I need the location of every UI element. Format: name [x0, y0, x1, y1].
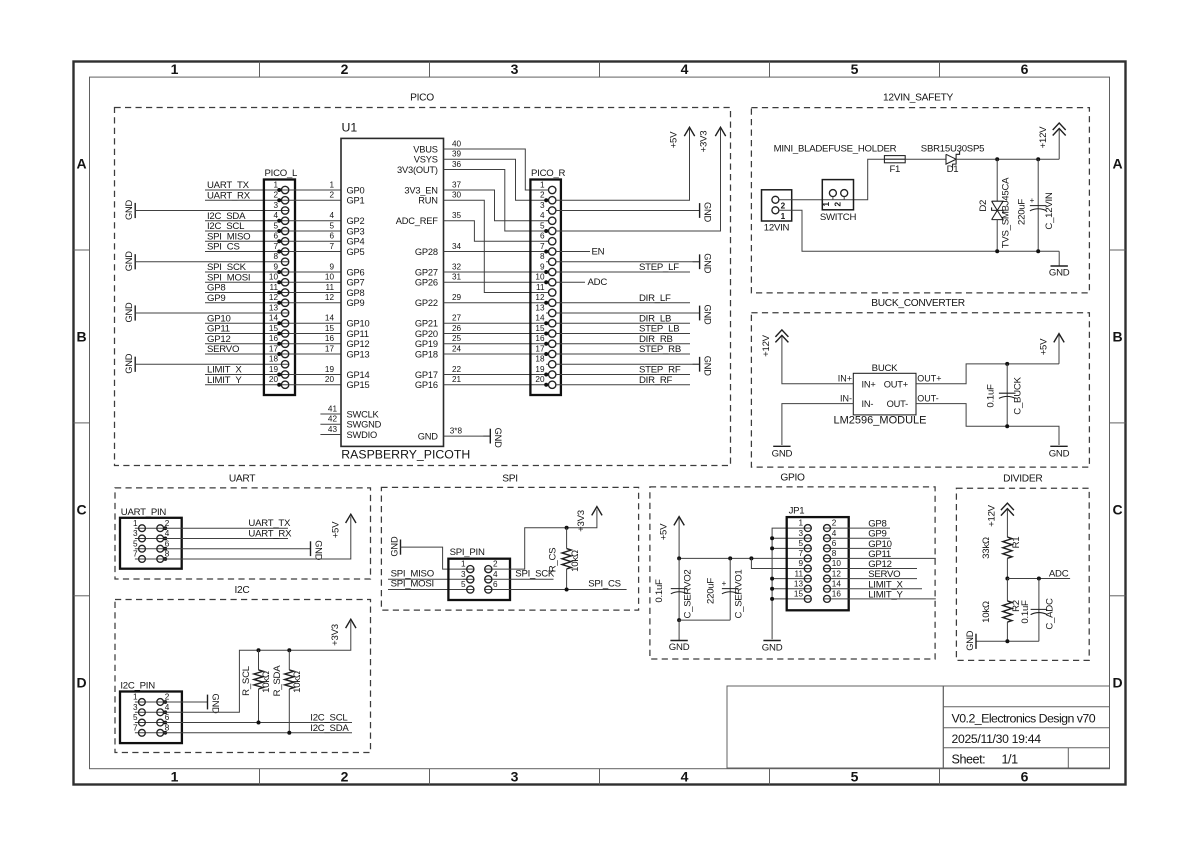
svg-text:GP22: GP22	[415, 298, 438, 308]
junction	[287, 648, 291, 652]
junction	[1005, 362, 1009, 366]
svg-text:ADC: ADC	[1049, 569, 1069, 580]
wire	[782, 336, 853, 383]
svg-text:GP11: GP11	[347, 329, 369, 339]
power symbol +5V (PICO)	[669, 127, 695, 148]
svg-text:Sheet:: Sheet:	[952, 753, 986, 767]
wire	[444, 314, 549, 324]
svg-text:LM2596_MODULE: LM2596_MODULE	[834, 414, 927, 426]
svg-text:21: 21	[452, 375, 462, 384]
svg-text:2: 2	[341, 769, 349, 785]
svg-text:GND: GND	[702, 305, 712, 326]
junction	[565, 588, 569, 592]
power symbol GND (GPIO bus)	[762, 641, 783, 654]
connector PICO_L pin circles	[281, 186, 288, 193]
svg-text:GP0: GP0	[347, 185, 365, 195]
wire	[916, 364, 1059, 384]
junction	[1005, 639, 1009, 643]
svg-text:5: 5	[273, 221, 278, 230]
svg-text:3: 3	[133, 529, 138, 538]
capacitor C_SERVO1 220uF	[705, 558, 744, 620]
power symbol GND (left of PICO_L)	[124, 199, 135, 220]
net label DIR_LF	[639, 293, 671, 304]
svg-text:11: 11	[270, 283, 279, 292]
svg-text:40: 40	[452, 139, 462, 148]
svg-text:+12V: +12V	[1038, 126, 1049, 149]
power symbol GND (right of PICO_R)	[693, 305, 713, 326]
net label STEP_RF	[639, 365, 681, 376]
wire	[205, 230, 281, 232]
net label GP8	[868, 519, 886, 530]
svg-text:16: 16	[325, 334, 335, 343]
wire	[164, 548, 311, 550]
svg-text:1: 1	[461, 560, 466, 569]
junction	[770, 587, 774, 591]
svg-text:+5V: +5V	[658, 523, 669, 540]
svg-text:0.1uF: 0.1uF	[654, 579, 665, 603]
junction	[1005, 424, 1009, 428]
wire	[556, 261, 700, 263]
wire	[205, 374, 281, 376]
wire	[289, 344, 341, 354]
svg-text:6: 6	[1021, 61, 1029, 77]
svg-text:IN+: IN+	[862, 379, 876, 389]
svg-text:D: D	[76, 674, 86, 690]
svg-text:11: 11	[326, 283, 335, 292]
wire	[1007, 578, 1070, 580]
svg-text:3*8: 3*8	[450, 427, 463, 436]
SPI section box	[381, 473, 638, 610]
svg-text:PICO: PICO	[410, 93, 434, 104]
power symbol +3V3 (I2C)	[330, 619, 356, 646]
svg-text:DIVIDER: DIVIDER	[1003, 474, 1042, 485]
wire	[444, 160, 549, 231]
net label STEP_RB	[639, 344, 681, 355]
svg-text:12: 12	[325, 293, 335, 302]
svg-text:10kΩ: 10kΩ	[261, 671, 272, 693]
wire	[444, 150, 549, 201]
svg-text:37: 37	[452, 180, 462, 189]
power symbol +5V (GPIO)	[658, 517, 684, 541]
net label SPI_MISO	[391, 569, 434, 580]
svg-text:+3V3: +3V3	[699, 131, 710, 153]
svg-text:B: B	[1112, 329, 1122, 345]
wire	[164, 722, 352, 724]
junction	[677, 618, 681, 622]
net label SPI_SCK	[515, 569, 555, 580]
wire	[916, 404, 1059, 445]
svg-text:15: 15	[535, 324, 545, 333]
svg-text:GP15: GP15	[347, 380, 370, 390]
svg-text:R1: R1	[1011, 537, 1022, 549]
net label SPI_MOSI	[391, 579, 434, 590]
svg-text:5: 5	[851, 61, 859, 77]
svg-text:+3V3: +3V3	[576, 510, 587, 532]
I2C section box	[115, 585, 371, 753]
capacitor C_12VIN 220uF	[1017, 159, 1055, 251]
svg-text:GND: GND	[124, 302, 134, 323]
svg-text:2: 2	[493, 560, 498, 569]
wire	[205, 333, 281, 335]
wire	[556, 129, 721, 231]
net label GP10	[868, 539, 892, 550]
wire	[556, 343, 690, 345]
junction	[770, 597, 774, 601]
svg-text:24: 24	[452, 344, 462, 353]
svg-text:5: 5	[461, 580, 466, 589]
svg-text:2: 2	[781, 202, 786, 211]
wire	[289, 242, 341, 252]
power symbol GND (SPI)	[389, 536, 400, 557]
svg-text:18: 18	[269, 355, 279, 364]
net label I2C_SCL	[207, 221, 245, 232]
wire	[976, 640, 1039, 642]
fuse F1 MINI_BLADEFUSE_HOLDER	[774, 144, 906, 175]
svg-text:D2: D2	[978, 200, 989, 212]
svg-text:14: 14	[325, 314, 335, 323]
wire	[164, 701, 208, 703]
wire	[556, 363, 700, 365]
svg-text:GND: GND	[210, 694, 220, 715]
svg-text:13: 13	[794, 579, 804, 588]
svg-text:C: C	[1112, 501, 1122, 517]
net label SPI_MISO	[207, 231, 250, 242]
JP1 pin circles	[804, 525, 811, 532]
connector PICO_L	[264, 168, 298, 395]
net label I2C_SDA	[207, 211, 246, 222]
svg-text:19: 19	[535, 365, 545, 374]
svg-text:GND: GND	[669, 642, 690, 653]
svg-text:GND: GND	[313, 540, 323, 561]
junction	[770, 577, 774, 581]
svg-text:9: 9	[798, 559, 803, 568]
svg-text:10kΩ: 10kΩ	[570, 550, 581, 572]
wire	[556, 374, 690, 376]
svg-text:3: 3	[461, 570, 466, 579]
svg-text:4: 4	[681, 769, 689, 785]
svg-text:RUN: RUN	[418, 196, 438, 206]
svg-text:SPI_PIN: SPI_PIN	[450, 547, 485, 558]
svg-text:B: B	[76, 329, 86, 345]
svg-text:GND: GND	[702, 253, 712, 274]
svg-text:GND: GND	[702, 356, 712, 377]
svg-text:4: 4	[540, 211, 545, 220]
svg-text:GP5: GP5	[347, 247, 365, 257]
svg-text:1: 1	[329, 180, 334, 189]
wire	[444, 375, 549, 385]
svg-text:1: 1	[171, 769, 179, 785]
junction	[770, 546, 774, 550]
svg-text:R_SCL: R_SCL	[241, 665, 252, 696]
resistor R_CS 10kΩ	[548, 528, 582, 590]
svg-text:25: 25	[452, 334, 462, 343]
wire	[779, 159, 885, 200]
wire	[205, 353, 281, 355]
svg-text:2: 2	[834, 202, 843, 207]
net label SPI_CS	[588, 579, 621, 590]
svg-text:7: 7	[133, 550, 138, 559]
svg-text:F1: F1	[889, 164, 900, 175]
svg-text:220uF: 220uF	[1017, 199, 1028, 225]
wire	[388, 589, 467, 591]
svg-text:MINI_BLADEFUSE_HOLDER: MINI_BLADEFUSE_HOLDER	[774, 144, 897, 155]
svg-text:C_SERVO2: C_SERVO2	[682, 569, 693, 618]
svg-text:+5V: +5V	[669, 131, 680, 148]
wire	[205, 281, 281, 283]
PICO section box	[115, 93, 731, 466]
svg-text:7: 7	[540, 242, 545, 251]
wire	[289, 180, 341, 190]
net label DIR_RB	[639, 334, 673, 345]
svg-text:3V3_EN: 3V3_EN	[404, 185, 437, 195]
UART_PIN pin circles	[139, 525, 146, 532]
svg-text:PICO_L: PICO_L	[265, 168, 299, 179]
svg-text:EN: EN	[592, 246, 605, 257]
wire	[556, 322, 690, 324]
power symbol GND (safety)	[1049, 251, 1070, 278]
svg-text:16: 16	[832, 589, 842, 598]
svg-text:6: 6	[832, 539, 837, 548]
BUCK_CONVERTER section box	[751, 298, 1089, 467]
svg-text:UART_RX: UART_RX	[248, 528, 292, 539]
wire	[556, 129, 690, 200]
power symbol GND (servo caps)	[669, 620, 690, 653]
svg-text:GP6: GP6	[347, 267, 365, 277]
svg-text:GP13: GP13	[347, 349, 370, 359]
svg-text:12: 12	[269, 293, 279, 302]
svg-text:18: 18	[535, 355, 545, 364]
svg-text:12VIN_SAFETY: 12VIN_SAFETY	[883, 93, 954, 104]
wire	[289, 365, 341, 375]
svg-text:RASPBERRY_PICOTH: RASPBERRY_PICOTH	[341, 448, 470, 462]
svg-text:GND: GND	[1049, 268, 1070, 279]
wire	[205, 271, 281, 273]
svg-text:+5V: +5V	[330, 521, 341, 538]
wire	[289, 324, 341, 334]
svg-text:11: 11	[795, 569, 804, 578]
wire	[164, 537, 288, 539]
svg-text:17: 17	[269, 344, 279, 353]
svg-text:GP18: GP18	[415, 349, 438, 359]
svg-text:14: 14	[269, 314, 279, 323]
junction	[770, 536, 774, 540]
wire	[289, 293, 341, 303]
connector JP1	[787, 506, 849, 611]
wire	[444, 139, 549, 190]
svg-text:20: 20	[325, 375, 335, 384]
svg-text:SWGND: SWGND	[347, 420, 382, 430]
svg-text:GP21: GP21	[415, 319, 438, 329]
junction	[995, 249, 999, 253]
svg-text:19: 19	[269, 365, 279, 374]
net label SERVO	[207, 344, 239, 355]
svg-text:SPI: SPI	[502, 473, 518, 484]
svg-text:GND: GND	[124, 353, 134, 374]
resistor R2 10kΩ	[981, 579, 1022, 642]
power symbol GND (left of PICO_L)	[124, 353, 135, 374]
svg-text:43: 43	[328, 425, 338, 434]
wire	[831, 568, 918, 570]
svg-text:D: D	[1112, 674, 1122, 690]
net label SPI_SCK	[207, 262, 247, 273]
svg-text:LIMIT_Y: LIMIT_Y	[868, 589, 903, 600]
svg-text:GP8: GP8	[347, 288, 365, 298]
junction	[1037, 577, 1041, 581]
svg-text:9: 9	[273, 262, 278, 271]
svg-text:2: 2	[341, 61, 349, 77]
svg-text:GP10: GP10	[347, 319, 370, 329]
I2C_PIN pin circles	[139, 699, 146, 706]
svg-text:GPIO: GPIO	[780, 473, 805, 484]
svg-text:GP20: GP20	[415, 329, 438, 339]
svg-text:1/1: 1/1	[1002, 753, 1019, 767]
wire	[289, 211, 341, 221]
resistor R_SDA 10kΩ	[272, 650, 303, 733]
svg-text:20: 20	[269, 375, 279, 384]
connector PICO_R	[530, 168, 565, 395]
svg-text:GND: GND	[418, 431, 439, 441]
net label I2C_SDA	[310, 723, 349, 734]
svg-text:1: 1	[273, 180, 278, 189]
net label STEP_LF	[639, 262, 679, 273]
wire	[556, 353, 690, 355]
svg-text:GP9: GP9	[347, 298, 365, 308]
svg-text:16: 16	[535, 334, 545, 343]
svg-text:GND: GND	[124, 251, 134, 272]
svg-text:8: 8	[832, 549, 837, 558]
svg-text:C_SERVO1: C_SERVO1	[733, 569, 744, 618]
svg-text:ADC_REF: ADC_REF	[396, 216, 439, 226]
wire	[444, 262, 549, 272]
wire	[289, 334, 341, 344]
svg-text:DIR_RF: DIR_RF	[639, 375, 673, 386]
net label I2C_SCL	[310, 713, 348, 724]
power symbol GND (right of PICO_R)	[693, 202, 713, 223]
net label DIR_RF	[639, 375, 673, 386]
svg-text:VBUS: VBUS	[413, 144, 438, 154]
svg-text:10kΩ: 10kΩ	[981, 601, 992, 623]
svg-text:UART_PIN: UART_PIN	[121, 507, 167, 518]
wire	[205, 199, 281, 201]
net label GP9	[207, 293, 225, 304]
svg-text:27: 27	[452, 314, 462, 323]
wire	[444, 273, 549, 283]
junction	[257, 648, 261, 652]
junction	[1036, 157, 1040, 161]
wire	[320, 415, 341, 425]
svg-text:4: 4	[832, 529, 837, 538]
power symbol +3V3 (PICO)	[699, 127, 726, 152]
power symbol +5V (buck)	[1039, 334, 1065, 364]
net label LIMIT_Y	[868, 589, 903, 600]
svg-text:0.1uF: 0.1uF	[986, 384, 997, 408]
wire	[679, 519, 804, 559]
svg-text:4: 4	[273, 211, 278, 220]
connector UART_PIN	[120, 507, 182, 569]
svg-text:GP19: GP19	[415, 339, 438, 349]
wire	[831, 527, 891, 529]
capacitor C_SERVO2 0.1uF	[654, 558, 693, 620]
svg-text:GP7: GP7	[347, 278, 365, 288]
svg-text:12: 12	[535, 293, 545, 302]
power symbol +12V (buck)	[761, 330, 788, 357]
svg-text:4: 4	[493, 570, 498, 579]
wire	[289, 273, 341, 283]
net label GP12	[868, 559, 892, 570]
wire	[556, 210, 700, 212]
svg-text:3: 3	[798, 529, 803, 538]
wire	[831, 557, 936, 559]
svg-text:GP26: GP26	[415, 278, 438, 288]
svg-text:IN-: IN-	[840, 394, 852, 404]
wire	[444, 334, 549, 344]
UART section box	[115, 473, 371, 579]
junction	[565, 526, 569, 530]
power symbol +12V (divider)	[986, 503, 1014, 527]
wire	[556, 251, 590, 253]
wire	[205, 189, 281, 191]
power symbol +3V3 (SPI)	[576, 507, 602, 532]
svg-text:7: 7	[273, 242, 278, 251]
net label SERVO	[868, 569, 900, 580]
svg-text:4: 4	[681, 61, 689, 77]
switch SW1 SWITCH	[820, 180, 857, 223]
svg-text:19: 19	[325, 365, 335, 374]
svg-text:+: +	[1030, 196, 1035, 205]
wire	[289, 232, 341, 242]
svg-text:C_BUCK: C_BUCK	[1012, 376, 1023, 414]
svg-text:33kΩ: 33kΩ	[981, 537, 992, 559]
svg-text:GP17: GP17	[415, 370, 438, 380]
svg-text:1: 1	[133, 519, 138, 528]
wire	[289, 375, 341, 385]
op-amp U1 RASPBERRY_PICOTH symbol	[341, 121, 470, 462]
svg-text:5: 5	[133, 713, 138, 722]
junction	[257, 721, 261, 725]
connector J 12VIN	[762, 190, 792, 234]
svg-text:VSYS: VSYS	[414, 155, 438, 165]
net label SPI_CS	[207, 242, 240, 253]
wire	[205, 220, 281, 222]
svg-text:C_12VIN: C_12VIN	[1044, 192, 1055, 229]
net label GP11	[868, 549, 891, 560]
svg-text:13: 13	[269, 303, 279, 312]
power symbol GND (right of PICO_R)	[693, 356, 713, 377]
wire	[831, 537, 891, 539]
wire	[205, 251, 281, 253]
svg-text:26: 26	[452, 324, 462, 333]
svg-text:1: 1	[781, 212, 786, 221]
svg-text:C_ADC: C_ADC	[1045, 598, 1056, 630]
svg-text:22: 22	[452, 365, 462, 374]
wire	[831, 578, 918, 580]
wire	[444, 180, 549, 220]
svg-text:GP14: GP14	[347, 370, 370, 380]
svg-text:3: 3	[273, 201, 278, 210]
power symbol GND (left of PICO_L)	[124, 302, 135, 323]
svg-text:9: 9	[540, 262, 545, 271]
svg-text:7: 7	[133, 723, 138, 732]
junction	[995, 157, 999, 161]
diode D2 TVS_SMBJ45CA	[978, 159, 1012, 251]
svg-text:GND: GND	[702, 202, 712, 223]
svg-text:OUT+: OUT+	[917, 374, 941, 384]
svg-text:GP2: GP2	[347, 216, 365, 226]
GPIO section box	[650, 473, 935, 660]
wire	[289, 221, 341, 231]
wire	[492, 578, 554, 580]
wire	[444, 427, 491, 437]
